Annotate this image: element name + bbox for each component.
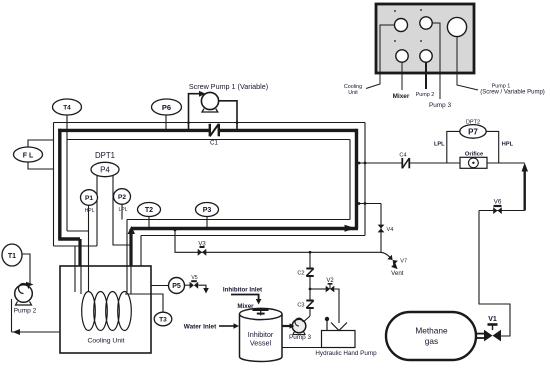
inhibitor vessel body [240, 314, 283, 361]
hydraulic hand pump box [322, 331, 356, 348]
pump Screw Pump 1 feet [202, 109, 218, 112]
check valve C3 [306, 301, 313, 309]
wire outer thin tee down to cooling [74, 246, 76, 266]
svg-text:HPL: HPL [502, 142, 514, 148]
check valve C1 diagonal [210, 124, 219, 137]
leader line pump2 knob [425, 62, 427, 89]
wire coil outlet inside box [130, 266, 132, 294]
junction dot C2 branch [309, 251, 312, 254]
wire outer thin loop left [53, 123, 55, 247]
svg-text:(Screw / Variable Pump): (Screw / Variable Pump) [480, 90, 545, 96]
junction dot V2 branch [309, 288, 312, 291]
valve V1 handle [488, 323, 498, 326]
svg-text:Water Inlet: Water Inlet [184, 323, 217, 330]
wire methane feed riser thick [524, 170, 526, 211]
wire inner thin elbow [67, 230, 89, 232]
flow arrow inhibitor inlet [231, 295, 259, 300]
coil loop 3 [106, 292, 120, 331]
leader line cooling unit knob [366, 25, 395, 89]
svg-text:Pump 2: Pump 2 [14, 308, 37, 315]
flow arrow pump outlet [212, 98, 219, 104]
valve V6 [493, 207, 502, 214]
wire pump2 suction down [11, 299, 13, 332]
junction dot feed a [358, 162, 361, 165]
flow arrow feed up [522, 163, 529, 172]
mixer stand [257, 313, 265, 315]
wire C2 branch down [309, 252, 311, 316]
svg-text:T3: T3 [159, 317, 167, 324]
svg-text:T2: T2 [145, 207, 153, 214]
wire FL top tap [28, 140, 54, 148]
panel dot 4 [420, 40, 422, 42]
wire outer thin loop bottom [141, 235, 365, 237]
svg-text:Cooling Unit: Cooling Unit [87, 338, 124, 345]
svg-text:HPL: HPL [85, 208, 95, 214]
wire V6 line [479, 210, 525, 212]
SECTION: instruments [53, 99, 219, 246]
svg-text:V5: V5 [191, 275, 197, 281]
junction dot bypass left [187, 121, 190, 124]
svg-text:V2: V2 [326, 278, 334, 284]
instrument P7 [460, 125, 486, 139]
svg-text:Orifice: Orifice [465, 152, 484, 158]
methane tank [386, 312, 476, 360]
wire V4 tap from loop [357, 203, 382, 205]
wire thick pipe bottom [131, 227, 358, 230]
wire V2 to hand pump [334, 289, 339, 323]
svg-text:Mixer: Mixer [237, 303, 254, 310]
vent outlet arrow [391, 263, 397, 269]
svg-text:Vent: Vent [391, 270, 404, 277]
SECTION: right side [357, 120, 529, 360]
panel dot 3 [394, 40, 396, 42]
svg-text:C3: C3 [297, 303, 304, 309]
instrument FL [14, 147, 43, 162]
inhibitor vessel top ellipse [239, 308, 282, 319]
wire T1 to pump 2 [22, 254, 30, 284]
wire vessel to pump3 thick [282, 325, 291, 327]
valve V5 [190, 282, 199, 289]
wire V4 vertical [380, 204, 382, 253]
knob pump1 (large) [447, 17, 466, 36]
wire bypass right [217, 101, 237, 130]
leader line pump3 knob [433, 23, 441, 99]
svg-text:Pump 3: Pump 3 [289, 334, 311, 341]
valve V3 [198, 249, 207, 256]
pump Pump 3 feet [293, 332, 305, 335]
wire thin tap P1 into box [88, 266, 90, 292]
wire inner thin loop right [349, 140, 351, 220]
wire methane feed pipe [357, 162, 525, 164]
valve V2 handle [329, 284, 331, 289]
wire thick riser from cooling unit [129, 229, 132, 266]
pump Pump 2 feet [16, 302, 32, 306]
check valve C2 [306, 269, 313, 277]
wire thick down to cooling unit [78, 239, 81, 266]
knob cooling unit [395, 19, 408, 32]
wire FL bottom tap [28, 161, 54, 169]
svg-text:T1: T1 [8, 253, 16, 260]
wire P5 tap [151, 285, 169, 287]
hand pump funnel [331, 323, 347, 331]
wire pump3 outlet [304, 316, 310, 322]
knob mixer [396, 50, 408, 62]
pump Pump 3 body [292, 319, 306, 333]
valve V3 handle [200, 246, 205, 248]
leader line pump1 knob [457, 37, 478, 91]
wire vent line diagonal [381, 252, 390, 257]
flow arrow right bottom pipe [345, 225, 356, 232]
instrument T1 [2, 244, 22, 266]
wire DPT2 bridge right [486, 131, 499, 163]
stem P3 [206, 216, 208, 228]
coil loop 1 [82, 292, 96, 331]
stem P6 [165, 114, 167, 130]
svg-text:Mixer: Mixer [393, 93, 410, 100]
svg-text:Vessel: Vessel [250, 339, 272, 348]
wire thin taps into box [74, 266, 76, 292]
instrument P2 [114, 189, 131, 205]
instrument P1 [81, 190, 98, 206]
leg DPT1 left [96, 176, 98, 246]
instrument T3 [154, 312, 172, 326]
valve V4 [378, 225, 385, 233]
wire V6 down leg [479, 211, 510, 337]
SECTION: screw pump [187, 82, 268, 147]
instrument T2 [138, 203, 161, 217]
wire T3 probe [125, 294, 163, 313]
flow arrow water inlet [219, 325, 234, 327]
svg-text:V4: V4 [387, 227, 394, 233]
junction dot V3 drop [174, 229, 177, 232]
svg-text:V6: V6 [494, 199, 502, 206]
control panel box [376, 4, 474, 73]
SECTION: cooling unit [60, 266, 209, 353]
wire HPL tap down to cooling (P1 stem) [88, 205, 90, 266]
knob pump3 [420, 17, 432, 29]
instrument P4 [91, 162, 119, 176]
svg-text:Unit: Unit [348, 90, 358, 96]
svg-text:Screw Pump 1 (Variable): Screw Pump 1 (Variable) [189, 82, 268, 91]
wire inner thin loop bottom [127, 219, 350, 221]
wire inner thin drop to cooling [126, 220, 128, 267]
svg-text:P4: P4 [100, 165, 110, 174]
svg-text:LPL: LPL [119, 207, 128, 213]
wire P5 to V5 [185, 284, 191, 286]
svg-text:Hydraulic Hand Pump: Hydraulic Hand Pump [315, 350, 377, 357]
svg-text:P5: P5 [172, 283, 181, 290]
instrument P3 [196, 203, 219, 217]
pump Pump 2 curl [19, 284, 29, 294]
wire V5 drain [198, 285, 206, 288]
svg-text:P1: P1 [85, 195, 93, 202]
svg-text:F L: F L [23, 152, 34, 159]
flow arrow drain down [203, 288, 209, 294]
pump Pump 2 body [15, 285, 33, 303]
junction dot feed b [364, 162, 367, 165]
valve V7 (diagonal) [387, 255, 398, 266]
check valve C1 right bar [218, 124, 220, 137]
SECTION: left side [2, 140, 60, 335]
svg-text:V3: V3 [198, 242, 206, 248]
check valve C1 left bar [209, 124, 211, 137]
svg-text:P2: P2 [118, 194, 126, 201]
flow arrow up riser [128, 226, 135, 234]
check valve C1 gap [211, 125, 218, 137]
wire V2 branch [310, 288, 326, 290]
cooling unit box [60, 266, 151, 353]
wire thick pipe right [355, 129, 358, 229]
wire thick pipe left [58, 129, 61, 239]
svg-text:C2: C2 [297, 271, 304, 277]
svg-text:LPL: LPL [434, 142, 445, 148]
wire inner thin loop left [66, 140, 68, 232]
valve V2 [326, 286, 335, 293]
svg-text:P6: P6 [162, 103, 171, 112]
svg-text:DPT1: DPT1 [95, 151, 115, 160]
SECTION: bottom middle [175, 229, 381, 361]
wire thick elbow left bottom [58, 237, 80, 240]
instrument P5 [169, 278, 185, 294]
instrument P6 [152, 99, 182, 115]
orifice center dot [472, 162, 474, 164]
flow arrow pump2 outlet [26, 282, 34, 288]
pump Pump 3 curl [295, 318, 303, 326]
wire thick pipe top [58, 129, 356, 132]
pump Screw Pump 1 body [201, 92, 218, 109]
mixer motor bar [253, 309, 269, 311]
flow arrow into pump [199, 91, 206, 97]
wire outer thin drop to cooling unit [140, 236, 142, 267]
wire outer thin loop right [364, 123, 366, 236]
flow arrow return left [13, 329, 21, 335]
leg DPT1 right [113, 176, 131, 245]
SECTION: control panel [344, 4, 545, 109]
coil loop 4 [118, 292, 132, 331]
wire vessel to hand pump [282, 347, 322, 349]
svg-text:P3: P3 [203, 207, 212, 214]
stem T4 [66, 114, 68, 140]
orifice circle [469, 158, 479, 168]
flow arrow into pump3 [290, 323, 295, 329]
wire coil inlet inside box [80, 266, 82, 294]
svg-text:V7: V7 [400, 259, 407, 265]
svg-text:T4: T4 [63, 105, 71, 112]
coil loop 2 [94, 292, 108, 331]
SECTION: main loop pipes [54, 123, 366, 267]
svg-text:Pump 3: Pump 3 [429, 102, 451, 109]
wire bottom return to cooling unit [12, 331, 61, 333]
valve V6 handle bar [494, 205, 502, 207]
svg-text:P7: P7 [468, 127, 478, 136]
valve V5 handle [191, 280, 197, 282]
wire DPT2 bridge left [447, 131, 460, 163]
stem T2 [148, 216, 150, 228]
check valve C4 [402, 158, 409, 168]
wire inner thin loop top [67, 139, 350, 141]
orifice box [460, 157, 487, 168]
wire outer thin loop top [54, 122, 366, 124]
valve V1 stem [492, 325, 494, 330]
knob pump2 [420, 50, 432, 62]
wire bypass left [189, 94, 201, 130]
panel dot 2 [420, 9, 422, 11]
valve V1 [484, 330, 501, 342]
svg-text:C4: C4 [399, 153, 406, 159]
junction dot V4 tap b [364, 202, 367, 205]
svg-text:V1: V1 [488, 316, 497, 323]
junction dot V4 tap a [358, 202, 361, 205]
leader line mixer knob [401, 63, 403, 91]
panel dot 1 [394, 10, 396, 12]
wire V3 drop from loop [175, 229, 381, 252]
svg-text:Methane: Methane [415, 326, 448, 336]
wire outer thin bottom-left tap [54, 245, 98, 247]
svg-text:C1: C1 [210, 140, 218, 147]
junction dot bypass right [236, 121, 239, 124]
stem P2 [121, 204, 123, 220]
svg-text:gas: gas [425, 336, 438, 346]
wire thin tap inner into box [126, 266, 128, 292]
hand pump lever [326, 321, 328, 330]
tank nozzle [475, 333, 484, 335]
svg-text:Inhibitor Inlet: Inhibitor Inlet [223, 287, 262, 294]
instrument T4 [53, 99, 82, 115]
svg-text:Pump 2: Pump 2 [416, 92, 435, 98]
